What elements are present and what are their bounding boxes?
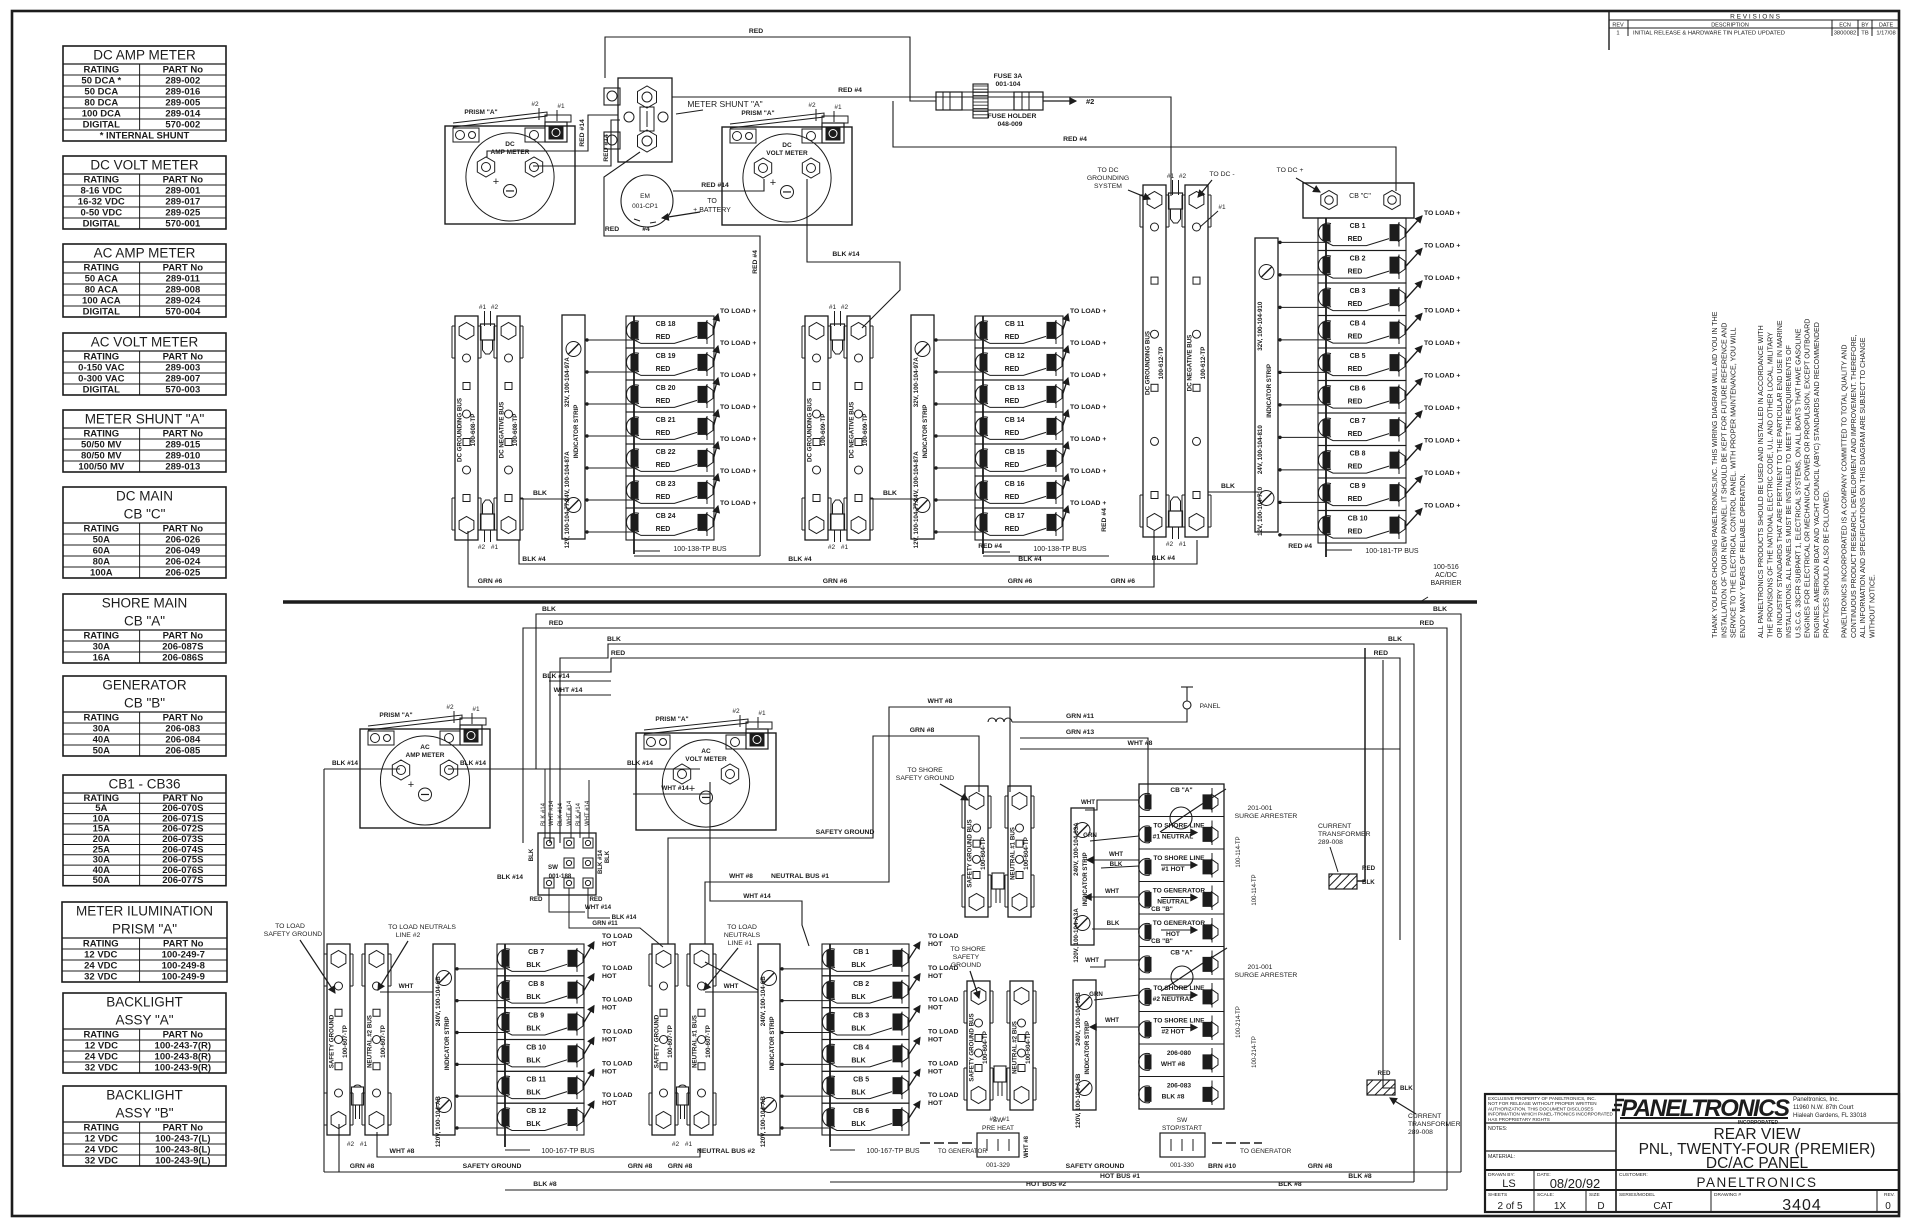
svg-text:SERIES/MODEL: SERIES/MODEL <box>1619 1192 1655 1198</box>
svg-text:SURGE ARRESTER: SURGE ARRESTER <box>1235 972 1298 979</box>
svg-text:100-609-TP: 100-609-TP <box>820 414 827 447</box>
svg-text:CB 24: CB 24 <box>656 513 676 520</box>
svg-text:RED: RED <box>656 398 671 405</box>
svg-text:VOLT METER: VOLT METER <box>685 756 727 763</box>
svg-text:HOT: HOT <box>928 1068 943 1075</box>
bus bar: DC NEGATIVE BUS group1 <box>494 316 523 540</box>
svg-text:120V, 100-104-AB: 120V, 100-104-AB <box>435 1096 442 1148</box>
wire bottom RED #4 group1 <box>634 555 760 557</box>
svg-text:#2: #2 <box>347 1141 355 1148</box>
strip wire CB 3 <box>1278 306 1326 308</box>
svg-text:TO LOAD +: TO LOAD + <box>1070 340 1106 347</box>
svg-text:WHT #8: WHT #8 <box>1161 1061 1186 1068</box>
svg-text:11960 N.W. 87th Court: 11960 N.W. 87th Court <box>1793 1105 1854 1111</box>
svg-text:#1: #1 <box>1167 173 1175 180</box>
strip wire AC CB 3 <box>780 1031 830 1033</box>
indicator strip: AC groupB <box>758 944 780 1147</box>
svg-text:PART No: PART No <box>163 631 204 642</box>
Paneltronics logo <box>1612 1095 1867 1126</box>
strip wire AC CB 9 <box>455 1031 505 1033</box>
svg-text:DIGITAL: DIGITAL <box>83 307 120 318</box>
svg-text:50A: 50A <box>93 746 111 757</box>
svg-text:32 VDC: 32 VDC <box>84 972 117 983</box>
svg-text:INDICATOR STRIP: INDICATOR STRIP <box>444 1016 451 1070</box>
svg-text:ALL PANELTRONICS PRODUCTS SHOU: ALL PANELTRONICS PRODUCTS SHOULD BE USED… <box>1757 325 1765 638</box>
proprietary notice text <box>1488 1096 1613 1160</box>
svg-text:THANK YOU FOR CHOOSING PANELTR: THANK YOU FOR CHOOSING PANELTRONICS,INC.… <box>1711 311 1719 638</box>
label 100-138-TP BUS group2 <box>983 551 1010 553</box>
svg-text:206-084: 206-084 <box>165 735 201 746</box>
breaker CB 3 <box>1318 275 1460 316</box>
svg-text:HOT: HOT <box>602 1037 617 1044</box>
breaker bus line group1 <box>633 316 635 554</box>
indicator strip: group1 <box>562 315 585 548</box>
svg-text:CB 4: CB 4 <box>853 1045 869 1052</box>
svg-text:RED #4: RED #4 <box>752 250 759 274</box>
strip wire CB 17 <box>934 531 983 533</box>
svg-text:CB "A": CB "A" <box>124 614 165 629</box>
svg-text:570-003: 570-003 <box>165 385 200 396</box>
svg-text:100-249-8: 100-249-8 <box>162 961 205 972</box>
svg-text:BLK #14: BLK #14 <box>627 760 653 767</box>
breaker CB 2 (AC) <box>822 965 959 1008</box>
svg-text:TO LOAD +: TO LOAD + <box>1070 308 1106 315</box>
svg-text:BLK: BLK <box>526 1089 540 1096</box>
svg-text:TO LOAD: TO LOAD <box>928 1060 959 1067</box>
svg-text:206-085: 206-085 <box>165 746 201 757</box>
wire GRN #11 to panel <box>1012 709 1187 722</box>
strip wire AC CB 2 <box>780 1000 830 1002</box>
svg-text:#4: #4 <box>642 226 650 233</box>
svg-text:PART No: PART No <box>163 524 204 535</box>
strip wire AC CB 5 <box>780 1095 830 1097</box>
svg-text:TO LOAD +: TO LOAD + <box>720 340 756 347</box>
svg-text:WHT: WHT <box>1081 799 1095 806</box>
svg-text:CB 16: CB 16 <box>1005 481 1025 488</box>
svg-text:SAFETY GROUND: SAFETY GROUND <box>1066 1163 1125 1170</box>
svg-text:BLK #14: BLK #14 <box>542 673 569 680</box>
svg-text:24V, 100-104-810: 24V, 100-104-810 <box>1257 425 1264 475</box>
svg-text:#2: #2 <box>828 544 836 551</box>
svg-text:GRN #11: GRN #11 <box>592 920 618 927</box>
svg-text:289-001: 289-001 <box>165 186 201 197</box>
svg-text:GROUND: GROUND <box>951 962 981 969</box>
svg-text:BRN #10: BRN #10 <box>1208 1163 1236 1170</box>
breaker bus line group2 <box>982 316 984 554</box>
strip wire CB 8 <box>1278 469 1326 471</box>
svg-text:WHT #8: WHT #8 <box>729 873 753 880</box>
svg-text:RED: RED <box>549 620 563 627</box>
breaker CB 21 <box>626 404 756 444</box>
svg-text:STOP/START: STOP/START <box>1162 1125 1202 1132</box>
breaker CB 4 (AC) <box>822 1029 959 1072</box>
svg-text:DC NEGATIVE BUS: DC NEGATIVE BUS <box>1187 335 1194 392</box>
svg-text:DC VOLT METER: DC VOLT METER <box>90 158 199 173</box>
title block frame <box>1485 1094 1899 1212</box>
svg-text:BLK: BLK <box>526 1026 540 1033</box>
strip wire CB 1 <box>1278 241 1326 243</box>
svg-text:BLK: BLK <box>1107 920 1120 927</box>
svg-text:0-300 VAC: 0-300 VAC <box>78 374 124 385</box>
svg-text:TO LOAD +: TO LOAD + <box>1424 470 1460 477</box>
breaker CB 9 <box>1318 470 1460 511</box>
wire BLK #14 SW bottom <box>588 888 610 918</box>
svg-text:SURGE ARRESTER: SURGE ARRESTER <box>1235 813 1298 820</box>
svg-text:001-CP1: 001-CP1 <box>632 203 658 210</box>
svg-text:CB 1: CB 1 <box>853 949 869 956</box>
strip wire CB 24 <box>585 531 634 533</box>
wire BLK #4 bottom DC <box>519 540 1197 564</box>
svg-text:ECN: ECN <box>1839 23 1851 29</box>
svg-text:TO LOAD +: TO LOAD + <box>1424 243 1460 250</box>
breaker CB 1 (AC) <box>822 933 959 976</box>
svg-text:RATING: RATING <box>83 352 119 363</box>
svg-text:#1: #1 <box>685 1141 693 1148</box>
svg-text:TRANSFORMER: TRANSFORMER <box>1408 1121 1461 1128</box>
svg-text:30A: 30A <box>93 642 111 653</box>
wire BLK #14 to SW <box>549 680 611 682</box>
svg-text:CB 12: CB 12 <box>526 1108 546 1115</box>
svg-text:AC: AC <box>701 748 711 755</box>
svg-text:001-329: 001-329 <box>986 1162 1010 1169</box>
svg-text:CB 1: CB 1 <box>1350 223 1366 230</box>
svg-text:TO LOAD +: TO LOAD + <box>1424 503 1460 510</box>
svg-text:24 VDC: 24 VDC <box>84 961 117 972</box>
svg-text:TO LOAD +: TO LOAD + <box>1424 210 1460 217</box>
svg-text:LINE #2: LINE #2 <box>396 932 421 939</box>
svg-text:WHT #14: WHT #14 <box>549 800 555 826</box>
svg-text:TO SHORE LINE: TO SHORE LINE <box>1153 855 1205 862</box>
svg-text:80/50 MV: 80/50 MV <box>81 451 122 462</box>
wire RED #4 fuse to CB C <box>893 101 1396 191</box>
svg-text:100-167-TP BUS: 100-167-TP BUS <box>866 1148 920 1155</box>
svg-text:WHT: WHT <box>1105 888 1119 895</box>
svg-text:BLK: BLK <box>883 490 897 497</box>
svg-text:100 DCA: 100 DCA <box>82 109 121 120</box>
svg-text:NEUTRAL #1 BUS: NEUTRAL #1 BUS <box>1010 827 1017 880</box>
wire WHT #14 to SW <box>558 694 611 696</box>
svg-text:BLK #8: BLK #8 <box>1162 1094 1185 1101</box>
svg-text:80 ACA: 80 ACA <box>85 285 119 296</box>
svg-text:WHT #14: WHT #14 <box>585 800 591 826</box>
svg-text:40A: 40A <box>93 735 111 746</box>
wire bottom RED #4 group2 <box>983 555 1109 557</box>
breaker CB 13 <box>975 372 1106 412</box>
strip wire CB 14 <box>934 435 983 437</box>
svg-text:TO LOAD +: TO LOAD + <box>1424 405 1460 412</box>
svg-text:HOT: HOT <box>928 941 943 948</box>
svg-text:SAFETY GROUND: SAFETY GROUND <box>264 931 323 938</box>
svg-text:SYSTEM: SYSTEM <box>1094 183 1122 190</box>
svg-text:PART No: PART No <box>163 352 204 363</box>
strip wire CB 7 <box>1278 436 1326 438</box>
svg-text:SIZE: SIZE <box>1589 1192 1600 1198</box>
svg-text:AMP METER: AMP METER <box>406 752 445 759</box>
svg-text:SW: SW <box>1177 1117 1188 1124</box>
svg-text:WITHOUT NOTICE.: WITHOUT NOTICE. <box>1869 574 1877 638</box>
bus bar: NEUTRAL #2 BUS D <box>1007 981 1036 1110</box>
svg-text:TO LOAD +: TO LOAD + <box>720 500 756 507</box>
svg-text:#1 NEUTRAL: #1 NEUTRAL <box>1153 834 1194 841</box>
svg-text:SW: SW <box>993 1117 1004 1124</box>
bus link: bottom link group2 <box>831 500 845 530</box>
svg-text:RED: RED <box>1362 865 1376 872</box>
svg-text:BLK #14: BLK #14 <box>541 802 547 826</box>
svg-text:TO LOAD: TO LOAD <box>602 997 633 1004</box>
indicator strip: shore C <box>1071 808 1094 963</box>
strip wire CB 15 <box>934 467 983 469</box>
svg-text:RED #4: RED #4 <box>978 543 1002 550</box>
svg-text:RED: RED <box>656 526 671 533</box>
svg-text:206-024: 206-024 <box>165 557 201 568</box>
wire BLK to shore row5 <box>1092 928 1139 930</box>
svg-text:CB 8: CB 8 <box>528 981 544 988</box>
svg-text:DC GROUNDING BUS: DC GROUNDING BUS <box>1145 331 1152 395</box>
svg-text:HOT: HOT <box>928 1037 943 1044</box>
engine monitor EM 001-CP1 <box>621 175 673 227</box>
lamp between busses C <box>992 873 1004 903</box>
strip wire AC CB 1 <box>780 968 830 970</box>
svg-text:32V, 100-104-910: 32V, 100-104-910 <box>1257 301 1264 351</box>
svg-text:BLK: BLK <box>526 1121 540 1128</box>
title text REAR VIEW <box>1639 1126 1876 1172</box>
wire amp meter right terminal to shunt <box>533 120 620 166</box>
breaker CB 24 <box>626 500 756 540</box>
svg-text:WHT: WHT <box>399 983 414 990</box>
svg-text:#1: #1 <box>1002 1116 1010 1123</box>
svg-text:BLK: BLK <box>1221 483 1235 490</box>
svg-text:SHORE MAIN: SHORE MAIN <box>102 596 188 611</box>
svg-text:100-249-7: 100-249-7 <box>162 950 205 961</box>
svg-text:100-243-9(R): 100-243-9(R) <box>155 1063 212 1074</box>
wire WHT #14 volt meter AC <box>633 782 710 794</box>
svg-text:BARRIER: BARRIER <box>1430 580 1461 587</box>
strip wire AC CB 12 <box>455 1127 505 1129</box>
svg-text:RED: RED <box>656 462 671 469</box>
strip wire CB 10 <box>1278 534 1326 536</box>
svg-text:RED: RED <box>1348 529 1363 536</box>
wire GRN #11 SW to safety ground bus B <box>569 888 663 947</box>
svg-text:CB "C": CB "C" <box>124 507 166 522</box>
strip wire CB 11 <box>934 339 983 341</box>
svg-text:SERVICE TO THE ELECTRICAL CONT: SERVICE TO THE ELECTRICAL CONTROL PANEL.… <box>1730 327 1738 638</box>
svg-text:RED: RED <box>1005 526 1020 533</box>
svg-text:PRISM "A": PRISM "A" <box>655 716 688 723</box>
svg-text:WHT #14: WHT #14 <box>661 785 689 792</box>
strip wire CB 2 <box>1278 274 1326 276</box>
wire BLK #8 bottom <box>505 1189 1447 1191</box>
svg-text:CB 18: CB 18 <box>656 321 676 328</box>
svg-text:#1: #1 <box>472 706 480 713</box>
svg-text:289-008: 289-008 <box>1408 1129 1433 1136</box>
svg-text:TRANSFORMER: TRANSFORMER <box>1318 831 1371 838</box>
svg-text:TO LOAD +: TO LOAD + <box>720 372 756 379</box>
shore breaker row 7: TO SHORE LINE <box>1139 979 1224 1008</box>
svg-text:LS: LS <box>1502 1178 1515 1190</box>
strip wire AC CB 4 <box>780 1063 830 1065</box>
svg-text:BLK #4: BLK #4 <box>522 556 546 563</box>
svg-text:100-604-TP: 100-604-TP <box>982 1031 989 1064</box>
svg-text:100-604-TP: 100-604-TP <box>1023 837 1030 870</box>
wire amp meter terminals AC <box>324 768 400 770</box>
svg-text:100-612-TP: 100-612-TP <box>1158 347 1165 380</box>
svg-text:100-167-TP BUS: 100-167-TP BUS <box>541 1148 595 1155</box>
strip wire AC CB 6 <box>780 1127 830 1129</box>
svg-text:100-114-TP: 100-114-TP <box>1236 836 1242 867</box>
svg-text:INSTALLATION OF YOUR NEW PANNE: INSTALLATION OF YOUR NEW PANNEL. IT SHOU… <box>1720 323 1728 638</box>
wire GRN #13 <box>1020 738 1148 800</box>
svg-text:BLK: BLK <box>607 636 621 643</box>
svg-text:CB 13: CB 13 <box>1005 385 1025 392</box>
svg-text:CB 10: CB 10 <box>526 1045 546 1052</box>
svg-text:0-50 VDC: 0-50 VDC <box>80 208 122 219</box>
bus bar: DC NEGATIVE BUS group2 <box>844 316 873 540</box>
svg-text:100-214-TP: 100-214-TP <box>1252 1036 1258 1068</box>
svg-text:RED #14: RED #14 <box>701 182 729 189</box>
svg-text:TO LOAD: TO LOAD <box>275 923 305 930</box>
strip wire AC CB 11 <box>455 1095 505 1097</box>
svg-text:CB 23: CB 23 <box>656 481 676 488</box>
svg-text:BLK #14: BLK #14 <box>576 802 582 826</box>
svg-text:INDICATOR STRIP: INDICATOR STRIP <box>922 405 929 459</box>
svg-text:#1 HOT: #1 HOT <box>1161 866 1184 873</box>
svg-text:WHT: WHT <box>724 983 739 990</box>
svg-text:CB 2: CB 2 <box>1350 256 1366 263</box>
svg-text:GRN #6: GRN #6 <box>478 578 503 585</box>
wire BLK top AC 2 <box>560 644 1414 1182</box>
table: BACKLIGHT ASSY B <box>63 1086 226 1167</box>
svg-text:CB 5: CB 5 <box>853 1076 869 1083</box>
svg-text:16A: 16A <box>93 653 111 664</box>
svg-text:CB 10: CB 10 <box>1348 516 1368 523</box>
svg-text:PART No: PART No <box>163 429 204 440</box>
indicator strip: AC groupA <box>433 944 455 1147</box>
svg-text:#1: #1 <box>758 710 766 717</box>
bus bar: SAFETY GROUND BUS C <box>962 786 991 917</box>
panel lamp symbol <box>1181 687 1221 710</box>
svg-text:SAFETY GROUND: SAFETY GROUND <box>329 1014 336 1068</box>
breaker bus line AC groupB <box>829 944 831 1147</box>
label 100-167-TP BUS B <box>830 1149 855 1151</box>
svg-text:RATING: RATING <box>83 631 119 642</box>
fuse 3A 001-104 with holder 048-009 <box>936 84 1043 118</box>
breaker CB 9 (AC) <box>497 997 633 1040</box>
svg-text:BLK: BLK <box>526 994 540 1001</box>
breaker CB 6 <box>1318 373 1460 414</box>
svg-text:SAFETY: SAFETY <box>953 954 980 961</box>
svg-text:BLK: BLK <box>851 1026 865 1033</box>
svg-text:8-16 VDC: 8-16 VDC <box>80 186 122 197</box>
svg-text:HOT: HOT <box>1166 931 1180 938</box>
svg-text:100-604-TP: 100-604-TP <box>1025 1031 1032 1064</box>
svg-text:RED: RED <box>1348 431 1363 438</box>
svg-text:#1: #1 <box>829 304 837 311</box>
surge arrester 201-001 upper <box>1160 789 1226 832</box>
svg-text:BLK: BLK <box>526 962 540 969</box>
strip wire AC CB 7 <box>455 968 505 970</box>
table: CB1 - CB36 <box>63 775 226 886</box>
indicator strip: shore D <box>1073 980 1096 1128</box>
svg-text:100-608-TP: 100-608-TP <box>470 414 477 447</box>
svg-text:60A: 60A <box>93 546 111 557</box>
svg-text:048-009: 048-009 <box>998 121 1023 128</box>
svg-text:BACKLIGHT: BACKLIGHT <box>106 1088 183 1103</box>
svg-text:001-330: 001-330 <box>1170 1162 1194 1169</box>
svg-text:RED: RED <box>656 366 671 373</box>
wire RED top AC <box>523 628 1447 1190</box>
svg-text:BACKLIGHT: BACKLIGHT <box>106 995 183 1010</box>
svg-text:RED #4: RED #4 <box>1063 136 1087 143</box>
title block fields <box>1488 1172 1895 1214</box>
breaker CB 7 (AC) <box>497 933 633 976</box>
svg-text:1/17/08: 1/17/08 <box>1876 31 1895 37</box>
svg-text:TO LOAD +: TO LOAD + <box>720 468 756 475</box>
svg-text:NEUTRAL #2 BUS: NEUTRAL #2 BUS <box>367 1015 374 1068</box>
svg-text:RED: RED <box>749 28 763 35</box>
svg-text:SAFETY GROUND BUS: SAFETY GROUND BUS <box>967 819 974 887</box>
wire NEUTRAL BUS #1 to shore neutral bus <box>705 707 1010 944</box>
strip wire CB 19 <box>585 371 634 373</box>
svg-text:TO LOAD: TO LOAD <box>928 1029 959 1036</box>
svg-text:+ BATTERY: + BATTERY <box>693 207 731 214</box>
svg-text:EM: EM <box>640 193 650 200</box>
bus bar: DC GROUNDING BUS group1 <box>452 316 481 540</box>
svg-text:289-008: 289-008 <box>1318 839 1343 846</box>
svg-text:GRN: GRN <box>1089 991 1103 998</box>
svg-text:CB 8: CB 8 <box>1350 451 1366 458</box>
svg-text:289-014: 289-014 <box>165 109 201 120</box>
svg-text:100-138-TP BUS: 100-138-TP BUS <box>1033 546 1087 553</box>
svg-text:CURRENT: CURRENT <box>1318 823 1351 830</box>
svg-text:RED: RED <box>1348 464 1363 471</box>
svg-text:BLK: BLK <box>851 1058 865 1065</box>
svg-text:12 VDC: 12 VDC <box>85 1041 118 1052</box>
strip wire AC CB 10 <box>455 1063 505 1065</box>
svg-text:3800082: 3800082 <box>1834 31 1857 37</box>
svg-text:PART No: PART No <box>163 175 204 186</box>
svg-text:SAFETY GROUND: SAFETY GROUND <box>654 1014 661 1068</box>
svg-text:CB 15: CB 15 <box>1005 449 1025 456</box>
svg-text:TO GENERATOR: TO GENERATOR <box>1153 920 1206 927</box>
svg-text:MATERIAL:: MATERIAL: <box>1488 1154 1515 1160</box>
svg-text:24 VDC: 24 VDC <box>85 1145 118 1156</box>
svg-text:289-025: 289-025 <box>165 208 201 219</box>
svg-text:12V, 100-104-77A: 12V, 100-104-77A <box>913 498 920 549</box>
svg-text:TO LOAD +: TO LOAD + <box>1424 340 1460 347</box>
svg-text:AMP METER: AMP METER <box>491 149 530 156</box>
svg-text:TO LOAD: TO LOAD <box>602 1060 633 1067</box>
svg-text:100-249-9: 100-249-9 <box>162 972 205 983</box>
svg-text:TO LOAD +: TO LOAD + <box>1070 500 1106 507</box>
svg-text:CONTINUOUS PRODUCT RESEARCH, D: CONTINUOUS PRODUCT RESEARCH, DEVELOPMENT… <box>1850 334 1858 638</box>
svg-text:+: + <box>493 176 499 188</box>
svg-text:#2 NEUTRAL: #2 NEUTRAL <box>1153 996 1194 1003</box>
svg-text:CB 2: CB 2 <box>853 981 869 988</box>
label 100-138-TP BUS group1 <box>634 550 660 552</box>
svg-text:CB 9: CB 9 <box>528 1013 544 1020</box>
svg-text:201-001: 201-001 <box>1248 805 1273 812</box>
svg-text:201-001: 201-001 <box>1248 964 1273 971</box>
svg-text:DC/AC PANEL: DC/AC PANEL <box>1706 1155 1809 1172</box>
strip wire CB 23 <box>585 499 634 501</box>
svg-text:TB: TB <box>1861 31 1869 37</box>
svg-text:SHEETS: SHEETS <box>1488 1192 1507 1198</box>
svg-text:CAT: CAT <box>1653 1201 1672 1212</box>
svg-text:DC: DC <box>782 142 792 149</box>
svg-text:CB "B": CB "B" <box>124 696 165 711</box>
svg-text:BLK #4: BLK #4 <box>1152 555 1176 562</box>
svg-text:INITIAL RELEASE & HARDWARE TIN: INITIAL RELEASE & HARDWARE TIN PLATED UP… <box>1633 31 1785 37</box>
